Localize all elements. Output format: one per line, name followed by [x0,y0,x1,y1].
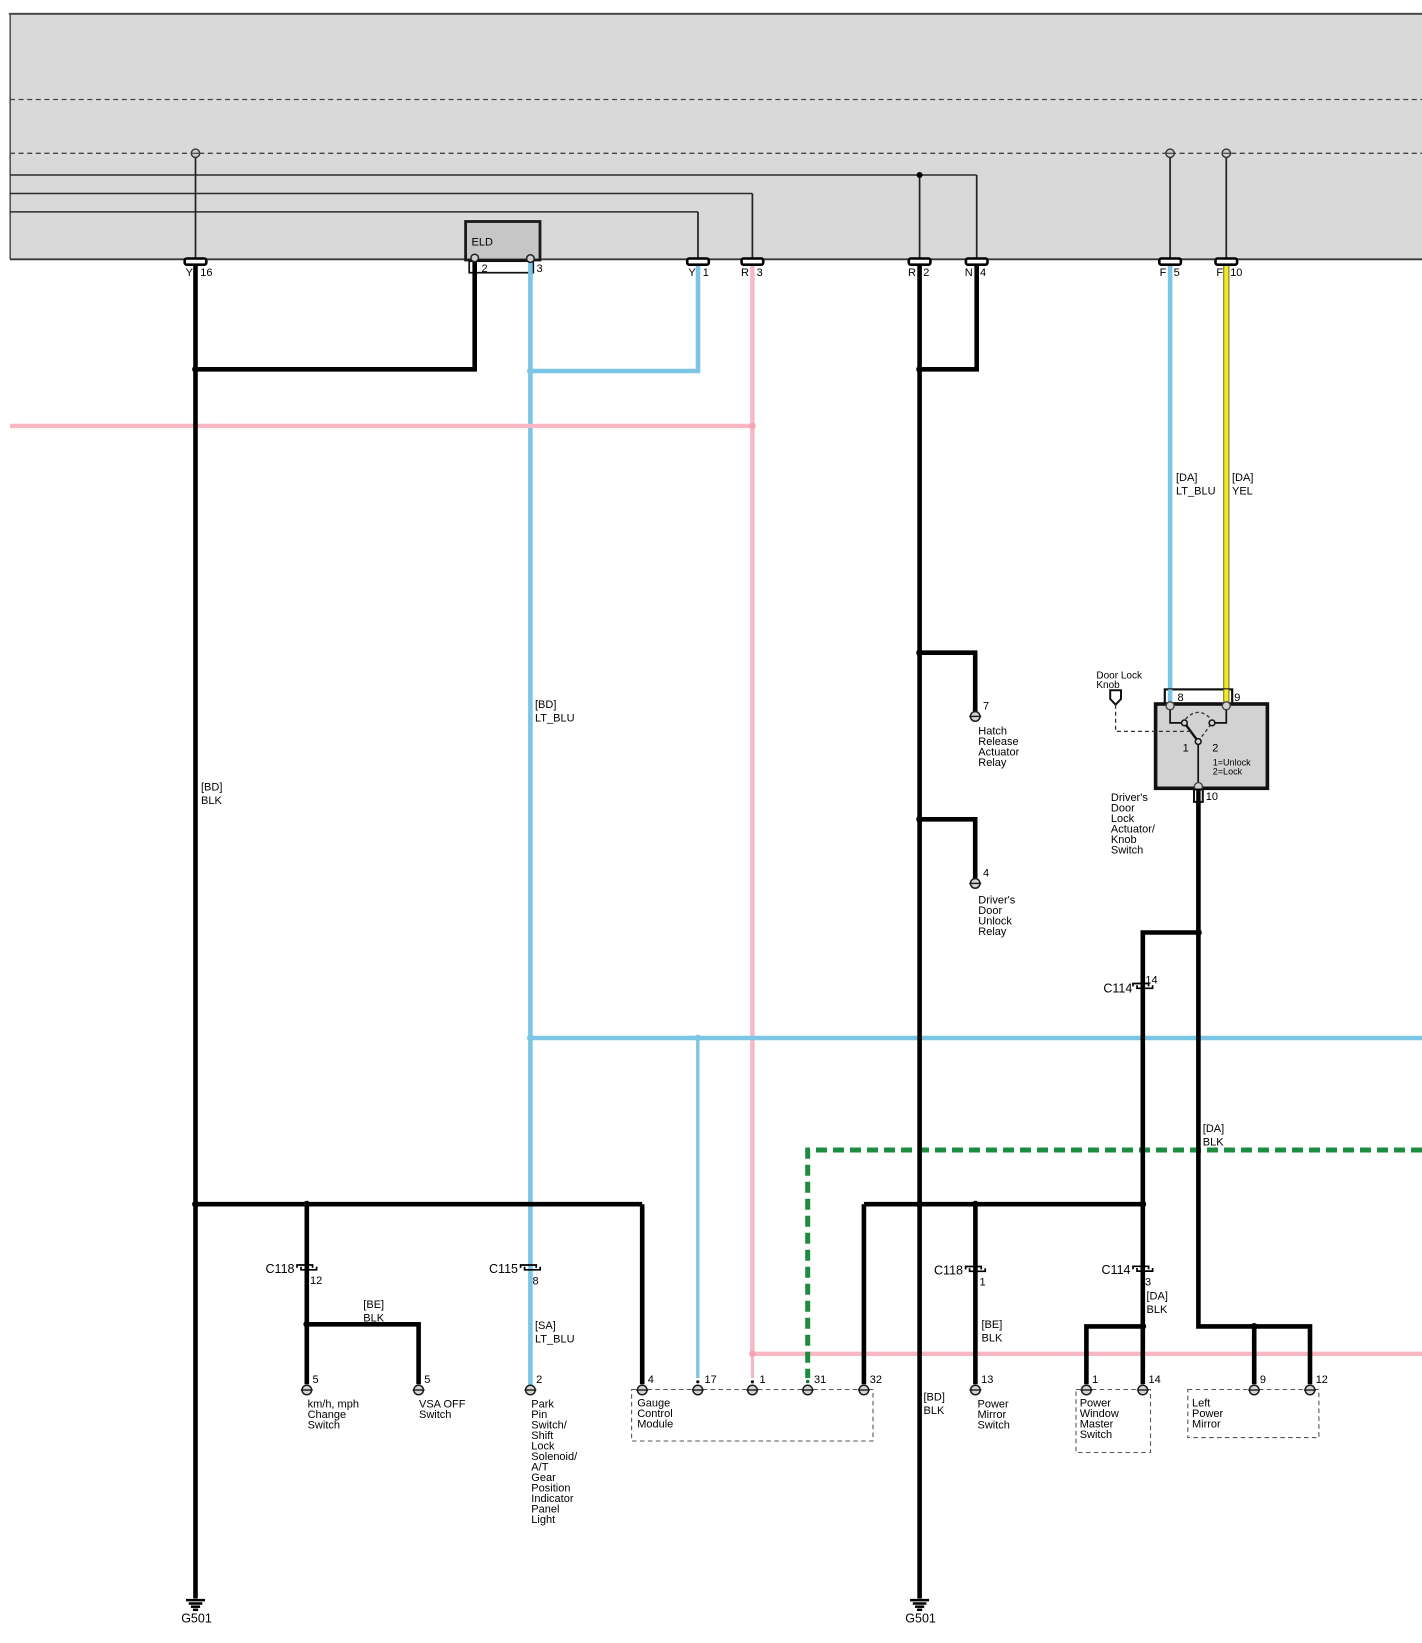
wire black bottom-left horizontal [196,1202,643,1207]
svg-text:LT_BLU: LT_BLU [535,1333,575,1345]
bus wire B (to R3) [10,193,752,195]
svg-text:13: 13 [981,1374,993,1386]
wire light blue drop to Gauge Control Module pin 17 [696,1038,699,1383]
svg-text:10: 10 [1230,267,1242,279]
svg-text:Mirror: Mirror [1192,1418,1221,1430]
svg-text:5: 5 [313,1374,319,1386]
wire N4 stub in band [976,175,978,262]
wire black door lock actuator pin 10 down [DA] BLK [1198,786,1310,1384]
connector R 3 [741,259,763,280]
svg-text:9: 9 [1234,692,1240,704]
terminal left power mirror pin 12 [1304,1385,1316,1395]
wire pink R3 vertical to Gauge Control Module pin 1 [751,265,754,1384]
dashed bus line lower [10,152,1422,154]
label [BD] LT_BLU [535,699,575,725]
svg-text:1: 1 [1183,743,1189,755]
svg-text:31: 31 [814,1374,826,1386]
terminal left power mirror pin 9 [1248,1385,1260,1395]
connector Y 16 [185,259,213,280]
junction dot R2/N4 [916,366,923,373]
junction dot pink upper [749,423,756,430]
svg-text:4: 4 [983,868,989,880]
wire yellow tail into pin 9 [1223,689,1229,702]
terminal km/h switch pin 5 [301,1385,313,1395]
Power Window Master Switch dashed box [1076,1390,1151,1453]
svg-text:9: 9 [1260,1374,1266,1386]
label [BE] BLK (right) [982,1319,1003,1345]
wire black R2 main vertical [BD] BLK to G501 [917,265,922,1599]
ELD unit box [466,222,540,261]
junction dot VSA branch [303,1321,310,1328]
svg-text:2: 2 [1212,743,1218,755]
wire black from ELD pin 2 to Y16 wire [196,261,475,370]
svg-text:R: R [741,267,749,279]
svg-text:4: 4 [980,267,986,279]
svg-text:Relay: Relay [978,926,1007,938]
switch lever solid (position 1) [1186,724,1198,740]
label [BD] BLK (left main) [201,782,222,808]
terminal GCM pin 32 [858,1385,870,1395]
wire black drop to Left Power Mirror pin 9 [1252,1326,1257,1384]
wire light blue F5 to door lock switch pin 8 [DA] LT_BLU [1168,265,1173,703]
wire black bottom-right horizontal [864,1202,1143,1207]
svg-text:BLK: BLK [1203,1137,1224,1149]
label [BD] BLK (bottom main) [924,1392,945,1418]
fuse box area (gray band) [9,13,1422,259]
wire black down through C118 to km/h switch pin 5 [BE] BLK [304,1204,309,1384]
bus wire C (to Y1) [10,211,698,213]
svg-text:2=Lock: 2=Lock [1213,766,1243,776]
label Power Mirror Switch [978,1399,1010,1432]
wire black from N4 to R2 wire [920,265,977,370]
svg-text:[BE]: [BE] [982,1319,1003,1331]
wire light blue tail into pin 8 [1168,689,1173,702]
terminal circle above Y16 [191,149,199,157]
pin circle 10 [1194,783,1202,791]
svg-text:32: 32 [870,1374,882,1386]
wire black branch C114 pin 14 loop [1143,933,1199,1205]
door lock knob symbol [1110,690,1121,704]
label Gauge Control Module [637,1397,673,1430]
connector bar pins 8,9 above door lock switch [1165,689,1232,703]
svg-text:[BD]: [BD] [201,782,222,794]
svg-text:Switch: Switch [419,1409,451,1421]
svg-text:BLK: BLK [1147,1304,1168,1316]
terminal circle above F5 [1166,149,1174,157]
connector R 2 [908,259,930,280]
wire pivot to pin 10 [1197,744,1199,783]
junction dot pink lower [749,1351,756,1358]
junction dot light blue at 371 [527,368,534,375]
wire green dashed (to right edge and down to pin 31) [806,1150,1422,1383]
svg-text:Switch: Switch [308,1420,340,1432]
label Hatch Release Actuator Relay [978,726,1019,770]
junction dot hatch relay branch [916,649,923,656]
Left Power Mirror dashed box [1188,1390,1319,1438]
pin 8/9 labels [1178,692,1241,704]
svg-text:1: 1 [980,1277,986,1289]
ground G501 (left) [181,1600,212,1625]
junction dot Y16/ELD2 [192,366,199,373]
dashed mechanical link knob to lever [1116,705,1192,732]
wire black C114-3 down to Power Window Master Switch pin 14 [DA] BLK [1141,1204,1146,1384]
junction dot left horizontal at Y16 wire [192,1201,199,1208]
junction dot right horizontal at R2 main [916,1201,923,1208]
svg-text:Y: Y [688,267,696,279]
switch internal wiring from pin 9 to contact 2 [1215,710,1226,723]
svg-text:1: 1 [1092,1374,1098,1386]
svg-text:14: 14 [1145,974,1157,986]
connector N 4 [965,259,988,280]
junction dot bus A / R2 [917,172,923,178]
driver's door lock actuator/knob switch box [1156,704,1268,788]
label Left Power Mirror [1192,1397,1224,1430]
terminal GCM pin 31 [802,1385,814,1395]
svg-text:G501: G501 [905,1612,936,1626]
svg-text:LT_BLU: LT_BLU [1176,486,1216,498]
svg-text:LT_BLU: LT_BLU [535,713,575,725]
lever pivot circle [1195,739,1201,745]
wire branch to Hatch Release Actuator Relay pin 7 [920,653,976,712]
junction dot Left Power Mirror pin 9 branch [1251,1323,1258,1330]
wire branch to Driver's Door Unlock Relay pin 4 [920,819,976,878]
terminal GCM pin 17 [692,1385,704,1395]
switch travel dashed arc [1186,712,1212,719]
svg-text:8: 8 [533,1275,539,1287]
svg-text:2: 2 [923,267,929,279]
wire pink horizontal lower (to right edge) [752,1352,1422,1356]
terminal PWMS pin 1 [1080,1385,1092,1395]
junction dot unlock relay branch [916,816,923,823]
label Park Pin Switch etc [531,1399,578,1527]
svg-text:Light: Light [531,1514,555,1526]
ground G501 (right) [905,1600,936,1625]
svg-text:C118: C118 [934,1263,963,1277]
svg-text:C114: C114 [1103,982,1132,996]
svg-text:F: F [1216,267,1223,279]
switch internal wiring from pin 8 to contact 1 [1170,710,1181,723]
label [DA] BLK (upper right) [1203,1123,1224,1149]
terminal circle above F10 [1222,149,1230,157]
connector F 5 [1159,259,1181,280]
svg-text:[DA]: [DA] [1203,1123,1224,1135]
label [SA] LT_BLU [535,1320,575,1346]
svg-text:14: 14 [1149,1374,1161,1386]
svg-text:5: 5 [424,1374,430,1386]
svg-text:[DA]: [DA] [1176,472,1197,484]
terminal power mirror switch pin 13 [969,1385,981,1395]
connector under ELD (pins 2,3) [469,261,542,275]
wire pink horizontal upper [from R3] [10,424,752,428]
svg-text:Relay: Relay [978,757,1007,769]
label [DA] BLK (C114 wire) [1147,1291,1168,1317]
junction dot left horizontal at C118 branch [303,1201,310,1208]
svg-text:16: 16 [200,267,212,279]
svg-text:4: 4 [648,1374,654,1386]
svg-text:ELD: ELD [472,237,493,249]
switch lever dashed alternate position to contact 2 [1198,725,1210,742]
pin circle 8 [1166,702,1174,710]
connector C114 pin 3 [1102,1263,1153,1288]
svg-text:C118: C118 [266,1262,295,1276]
svg-text:[SA]: [SA] [535,1320,556,1332]
wire black Y16 main vertical [BD] BLK to G501 [193,265,198,1599]
svg-text:5: 5 [1174,267,1180,279]
svg-text:Y: Y [186,267,194,279]
svg-text:2: 2 [482,263,488,275]
driver's door lock actuator label [1111,792,1156,857]
svg-text:YEL: YEL [1232,486,1253,498]
svg-text:BLK: BLK [982,1333,1003,1345]
svg-text:BLK: BLK [924,1405,945,1417]
terminal Hatch Release Actuator Relay pin 7 [969,712,981,722]
svg-text:BLK: BLK [201,795,222,807]
wire light blue from ELD pin 3 down [BD] LT_BLU [528,261,533,1386]
label [DA] YEL [1232,472,1253,498]
wire black branch to Power Window Master Switch pin 1 [1086,1326,1142,1384]
label km/h mph Change Switch [308,1399,359,1432]
terminal GCM pin 1 [746,1385,758,1395]
Gauge Control Module dashed box [632,1390,873,1442]
svg-text:12: 12 [1316,1374,1328,1386]
svg-text:Switch: Switch [1111,844,1143,856]
junction dot light blue horizontal start [527,1035,534,1042]
wire black Gauge Control Module pin 32 riser [862,1204,867,1384]
svg-text:C114: C114 [1102,1263,1131,1277]
svg-text:Module: Module [637,1418,673,1430]
svg-text:N: N [965,267,973,279]
dashed bus line upper [10,99,1422,101]
pin circle 9 [1222,702,1230,710]
svg-text:7: 7 [983,701,989,713]
contact position labels 1 and 2 [1183,743,1219,755]
label [BE] BLK (left) [363,1299,384,1325]
wire Y1 stub in band [697,212,699,262]
svg-text:1: 1 [703,267,709,279]
junction dot right horizontal at C118 branch [972,1201,979,1208]
legend 1=Unlock 2=Lock [1213,757,1251,776]
svg-text:[BE]: [BE] [363,1299,384,1311]
junction dot light blue at pin17 branch [694,1035,701,1042]
contact circle 1 [1182,720,1188,726]
svg-text:Knob: Knob [1096,680,1120,691]
terminal pin number labels [313,1374,1328,1386]
svg-text:12: 12 [310,1275,322,1287]
svg-text:1: 1 [760,1374,766,1386]
svg-text:Switch: Switch [1080,1429,1112,1441]
wire R3 stub in band [751,194,753,262]
svg-text:17: 17 [705,1374,717,1386]
wire yellow F10 to door lock switch pin 9 [DA] YEL [1223,265,1229,703]
label Power Window Master Switch [1080,1397,1119,1441]
svg-text:3: 3 [1145,1276,1151,1288]
svg-text:[DA]: [DA] [1232,472,1253,484]
svg-text:BLK: BLK [363,1312,384,1324]
svg-text:[BD]: [BD] [535,699,556,711]
junction dot at pin10 wire / C114 branch [1195,929,1202,936]
wire R2 stub in band [919,175,921,262]
wire black drop to Gauge Control Module pin 4 [640,1204,645,1384]
wire F10 stub in band [1225,155,1227,262]
label [DA] LT_BLU [1176,472,1216,498]
wire black down through C118 to Power Mirror Switch pin 13 [BE] BLK [973,1204,978,1384]
svg-text:R: R [908,267,916,279]
svg-text:2: 2 [536,1374,542,1386]
svg-text:10: 10 [1206,791,1218,803]
bus wire A (to R2/N4) [10,174,977,176]
relay pin number labels 7 and 4 [983,701,989,880]
terminal Driver's Door Unlock Relay pin 4 [969,879,981,889]
junction dot at C114-3 / bottom-right horizontal [1139,1201,1146,1208]
wire light blue horizontal (to right edge) [530,1036,1422,1041]
connector 10 below box [1194,790,1218,804]
contact circle 2 [1209,720,1215,726]
svg-text:[BD]: [BD] [924,1392,945,1404]
terminal GCM pin 4 [636,1385,648,1395]
wire Y16 stub in band [195,155,197,262]
terminal VSA OFF switch pin 5 [413,1385,425,1395]
connector C115 pin 8 [489,1262,540,1288]
connector C118 (right) pin 1 [934,1263,986,1288]
svg-text:[DA]: [DA] [1147,1291,1168,1303]
svg-text:3: 3 [757,267,763,279]
svg-text:8: 8 [1178,692,1184,704]
wire light blue from Y1 to ELD3 wire [530,265,698,371]
terminal PWMS pin 14 [1137,1385,1149,1395]
connector C114 pin 14 [1103,974,1157,995]
wire black branch to VSA OFF switch pin 5 [307,1324,419,1384]
label VSA OFF Switch [419,1399,466,1422]
connector Y 1 [687,259,709,280]
svg-text:F: F [1160,267,1167,279]
terminal park pin switch pin 2 [524,1385,536,1395]
svg-text:C115: C115 [489,1262,518,1276]
label Driver's Door Unlock Relay [978,894,1015,938]
junction dot PWMS pin1 branch [1139,1323,1146,1330]
connector C118 (left) pin 12 [266,1262,323,1287]
door lock knob label [1096,670,1143,690]
ELD pin circles [471,254,534,262]
svg-text:G501: G501 [181,1612,212,1626]
svg-text:Switch: Switch [978,1420,1010,1432]
svg-text:3: 3 [537,263,543,275]
wire F5 stub in band [1169,155,1171,262]
connector F 10 [1216,259,1243,280]
